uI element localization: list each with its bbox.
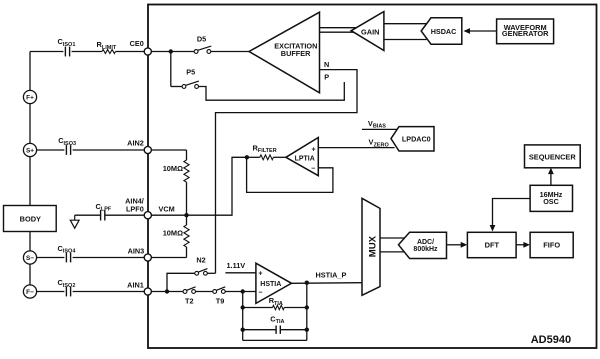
switch P5 <box>182 68 199 89</box>
wire C_ISO3 to AIN2 pin <box>73 149 145 151</box>
electrode S+ <box>23 143 36 156</box>
svg-text:AIN1: AIN1 <box>127 281 144 290</box>
label V_BIAS <box>368 119 386 130</box>
wire T9 to HSTIA <box>225 291 256 293</box>
svg-text:LPDAC0: LPDAC0 <box>402 134 431 143</box>
SEQUENCER box <box>525 145 581 168</box>
wire HSTIA feedback left <box>242 292 244 341</box>
resistor R_LIMIT <box>97 40 117 54</box>
resistor R_FILTER <box>247 143 286 159</box>
svg-text:−: − <box>311 165 315 172</box>
ADC block <box>399 232 447 258</box>
label V_ZERO <box>369 138 390 149</box>
wire OSC to sequencer <box>548 168 554 186</box>
wire D5 to buffer apex <box>211 51 249 53</box>
svg-text:FIFO: FIFO <box>543 240 560 249</box>
wire C_ISO1 to R_LIMIT <box>72 51 102 53</box>
op-amp gain stage <box>351 12 384 51</box>
svg-text:AD5940: AD5940 <box>531 334 571 346</box>
svg-text:AIN2: AIN2 <box>127 139 144 148</box>
16MHz OSC box <box>530 185 572 211</box>
capacitor C_ISO1 <box>58 37 76 56</box>
wire S+ to C_ISO3 <box>37 149 65 151</box>
wire R_LIMIT to CE0 pin <box>116 51 145 53</box>
svg-text:HSDAC: HSDAC <box>431 27 457 36</box>
pin AIN2 <box>127 139 151 154</box>
wire N2 branch <box>167 273 195 291</box>
wire P5 to P output loop <box>199 82 345 100</box>
wire N2 to N loop <box>207 272 215 274</box>
svg-text:F−: F− <box>26 289 34 296</box>
svg-text:10MΩ: 10MΩ <box>163 229 183 238</box>
FIFO box <box>530 232 573 257</box>
label AD5940 <box>531 334 571 346</box>
op-amp excitation buffer <box>249 12 320 93</box>
svg-text:DFT: DFT <box>485 240 500 249</box>
svg-text:F+: F+ <box>26 95 34 102</box>
capacitor C_ISO4 <box>58 244 77 263</box>
pin AIN1 <box>127 281 151 296</box>
switch D5 <box>194 34 211 53</box>
switch T9 <box>213 287 226 306</box>
op-amp HSTIA <box>256 263 292 303</box>
op-amp LPTIA <box>286 138 318 176</box>
wire CE0 junction down to P5 <box>170 52 172 87</box>
capacitor C_LPF <box>96 202 112 221</box>
switch T2 <box>183 287 196 306</box>
resistor R_TIA <box>241 296 309 310</box>
svg-text:S−: S− <box>26 255 34 262</box>
wire AIN2 pin to divider <box>151 149 186 151</box>
node HSTIA input junction <box>241 289 245 293</box>
wire OSC to DFT <box>490 199 530 232</box>
DFT box <box>467 232 516 257</box>
wire S- to C_ISO4 <box>37 257 65 259</box>
wire N output loop <box>216 70 358 274</box>
wire HSTIA feedback right <box>306 283 308 341</box>
MUX block <box>362 198 380 295</box>
wire buffer to gain lower <box>320 31 356 33</box>
svg-text:HSTIA_P: HSTIA_P <box>316 270 347 279</box>
svg-text:−: − <box>258 290 262 297</box>
BODY box <box>4 206 57 232</box>
wire LPTIA plus to V_ZERO <box>318 147 394 149</box>
wire C_ISO2 to AIN1 pin <box>73 291 145 293</box>
capacitor C_ISO2 <box>58 278 76 296</box>
wire T2 to T9 <box>196 291 213 293</box>
wire V_BIAS <box>362 128 399 130</box>
wire DFT to FIFO <box>516 242 530 248</box>
svg-text:N: N <box>324 60 329 69</box>
node R_FILTER junction <box>245 155 249 159</box>
wire S+ to BODY <box>29 157 31 206</box>
node VCM junction <box>184 213 188 217</box>
svg-text:GAIN: GAIN <box>361 28 379 37</box>
svg-text:S+: S+ <box>26 148 34 155</box>
wire gain to HSDAC upper <box>384 23 427 25</box>
ground <box>70 215 79 228</box>
wire divider mid <box>186 182 188 225</box>
wire divider bottom <box>186 247 188 258</box>
LPDAC0 block <box>391 127 434 151</box>
svg-text:N2: N2 <box>196 255 205 264</box>
resistor 10M lower <box>163 225 189 247</box>
svg-text:AIN3: AIN3 <box>128 246 145 255</box>
switch N2 <box>195 255 208 275</box>
wire ADC to DFT <box>447 242 468 248</box>
resistor 10M upper <box>163 160 189 182</box>
svg-text:GENERATOR: GENERATOR <box>502 29 549 38</box>
svg-text:D5: D5 <box>197 34 206 43</box>
svg-text:+: + <box>258 271 262 278</box>
svg-text:P: P <box>324 73 329 82</box>
pin CE0 <box>130 39 152 55</box>
pin AIN4/LPF0 <box>125 197 151 219</box>
wire S- to F- <box>29 264 31 285</box>
label P pin <box>324 73 329 82</box>
svg-text:10MΩ: 10MΩ <box>163 164 183 173</box>
svg-text:CE0: CE0 <box>130 39 144 48</box>
wire F- to C_ISO2 <box>37 291 65 293</box>
electrode F+ <box>23 90 36 103</box>
svg-text:P5: P5 <box>186 68 195 77</box>
wire HSTIA_P output <box>292 270 363 283</box>
svg-text:HSTIA: HSTIA <box>260 281 281 288</box>
pin AIN3 <box>128 246 152 261</box>
node CE0 junction <box>169 49 173 53</box>
wire feedback bottom rail <box>243 339 307 341</box>
node HSTIA_P junction <box>305 281 309 285</box>
wire gain to HSDAC lower <box>384 39 427 41</box>
svg-text:LPTIA: LPTIA <box>295 156 315 163</box>
svg-text:T2: T2 <box>185 296 194 305</box>
capacitor C_TIA <box>241 314 309 334</box>
svg-text:800kHz: 800kHz <box>413 246 438 253</box>
svg-text:VCM: VCM <box>159 205 175 214</box>
wire C_ISO4 to AIN3 pin <box>73 257 145 259</box>
svg-text:1.11V: 1.11V <box>227 261 246 270</box>
wire CE0 pin to junction <box>151 51 194 53</box>
svg-text:BUFFER: BUFFER <box>281 49 311 58</box>
waveform generator box <box>497 19 554 44</box>
wire BODY to S- <box>29 232 31 251</box>
wire ground to C_LPF <box>75 214 101 216</box>
wire MUX to ADC upper <box>380 237 406 239</box>
wire to P5 switch <box>171 86 182 88</box>
electrode F- <box>23 285 36 298</box>
wire VCM to LPTIA input <box>151 157 247 215</box>
capacitor C_ISO3 <box>58 136 76 155</box>
svg-text:T9: T9 <box>216 296 225 305</box>
wire C_LPF to AIN4 pin <box>105 214 144 216</box>
wire AIN3 pin to divider <box>151 257 186 259</box>
node AIN1 junction <box>165 289 169 293</box>
wire MUX to ADC lower <box>380 251 406 253</box>
wire LPTIA feedback <box>247 157 333 192</box>
svg-text:+: + <box>311 147 315 154</box>
wire CE0 row left <box>30 51 63 53</box>
wire F+ rail up to CE0 row <box>29 52 31 91</box>
HSDAC block <box>421 18 462 44</box>
svg-text:MUX: MUX <box>368 235 379 257</box>
wire waveform generator to HSDAC <box>464 28 497 34</box>
electrode S- <box>23 251 36 264</box>
wire divider top segment <box>186 150 188 160</box>
svg-text:OSC: OSC <box>543 197 559 206</box>
AD5940 chip boundary <box>148 5 597 349</box>
svg-text:LPF0: LPF0 <box>126 205 144 214</box>
label N pin <box>324 60 329 69</box>
svg-text:BODY: BODY <box>20 215 41 224</box>
wire F+ to S+ <box>29 104 31 144</box>
wire buffer to gain upper <box>320 27 357 29</box>
wire 1.11V to HSTIA plus <box>225 261 256 273</box>
wire AIN1 pin to T2 <box>151 291 183 293</box>
svg-text:SEQUENCER: SEQUENCER <box>529 152 576 161</box>
